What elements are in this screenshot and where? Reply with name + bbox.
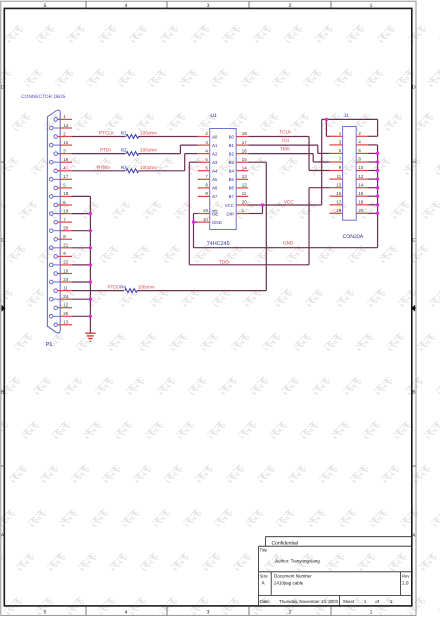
svg-text:1: 1 [370,609,373,615]
svg-text:16: 16 [63,157,68,162]
svg-text:100ohm: 100ohm [140,131,157,136]
svg-text:20: 20 [63,226,68,231]
svg-text:CONNECTOR DB25: CONNECTOR DB25 [21,94,65,100]
svg-text:Date:: Date: [260,599,271,604]
svg-text:15: 15 [336,191,341,196]
svg-text:11: 11 [242,191,247,196]
svg-text:B: B [1,390,4,396]
svg-text:13: 13 [242,174,247,179]
svg-text:25: 25 [63,311,68,316]
svg-text:A1: A1 [212,143,218,148]
svg-text:14: 14 [63,123,68,128]
svg-text:2: 2 [289,3,292,9]
svg-text:A5: A5 [212,177,218,182]
svg-text:13: 13 [336,182,341,187]
svg-text:20: 20 [242,200,247,205]
svg-text:OE: OE [212,211,218,216]
svg-text:U1: U1 [211,113,218,119]
svg-text:TDO: TDO [219,259,229,264]
svg-text:21: 21 [63,243,68,248]
svg-text:18: 18 [358,200,363,205]
svg-text:A2: A2 [212,151,218,156]
svg-text:B2: B2 [229,151,235,156]
svg-text:11: 11 [337,174,342,179]
svg-text:PTDO: PTDO [108,285,121,290]
svg-text:TDI: TDI [281,138,289,143]
svg-text:B4: B4 [229,169,235,174]
svg-text:4: 4 [125,609,128,615]
svg-text:B5: B5 [229,177,235,182]
svg-text:1: 1 [370,3,373,9]
svg-text:17: 17 [242,140,247,145]
svg-text:18: 18 [63,191,68,196]
svg-text:C: C [1,238,5,244]
svg-text:B3: B3 [229,160,235,165]
svg-text:PTDI: PTDI [100,148,111,153]
svg-text:100ohm: 100ohm [140,148,157,153]
svg-text:19: 19 [63,208,68,213]
svg-text:Title: Title [260,547,268,552]
svg-text:GND: GND [212,220,222,225]
svg-text:B1: B1 [229,143,235,148]
svg-text:B: B [412,390,415,396]
svg-text:VCC: VCC [284,199,295,204]
svg-text:24: 24 [63,294,68,299]
svg-text:17: 17 [63,174,68,179]
svg-text:100ohm: 100ohm [138,285,155,290]
svg-text:A7: A7 [212,194,218,199]
svg-text:R1: R1 [121,131,127,136]
svg-text:11: 11 [63,285,68,290]
svg-text:B0: B0 [229,134,235,139]
svg-text:R2: R2 [121,148,127,153]
svg-text:19: 19 [203,208,208,213]
svg-text:A3: A3 [212,160,218,165]
svg-text:23: 23 [63,277,68,282]
svg-text:P1: P1 [46,342,53,348]
svg-text:1.0: 1.0 [402,581,409,586]
svg-text:10: 10 [358,165,363,170]
svg-text:Rev: Rev [402,573,410,578]
svg-text:3: 3 [207,609,210,615]
svg-text:D: D [412,85,416,91]
svg-text:PTMS: PTMS [97,165,110,170]
svg-text:12: 12 [242,183,247,188]
svg-text:10: 10 [63,268,68,273]
svg-text:18: 18 [242,131,247,136]
svg-text:2: 2 [289,609,292,615]
svg-text:R3: R3 [121,165,127,170]
svg-text:DIR: DIR [226,211,234,216]
svg-text:12: 12 [358,174,363,179]
svg-text:A0: A0 [212,134,218,139]
svg-text:100ohm: 100ohm [140,165,157,170]
svg-text:Size: Size [260,573,269,578]
svg-text:3: 3 [207,3,210,9]
svg-text:B7: B7 [229,194,235,199]
svg-text:A6: A6 [212,186,218,191]
svg-text:15: 15 [242,157,247,162]
svg-text:Confidential: Confidential [272,540,298,546]
svg-text:VCC: VCC [225,203,234,208]
svg-text:CON20A: CON20A [343,234,364,240]
svg-text:74HC245: 74HC245 [207,241,230,247]
svg-text:A4: A4 [212,169,218,174]
svg-text:12: 12 [63,303,68,308]
svg-text:PTCLK: PTCLK [99,131,115,136]
svg-text:13: 13 [63,320,68,325]
svg-text:J1: J1 [344,113,350,119]
svg-text:5: 5 [44,3,47,9]
svg-text:19: 19 [336,208,341,213]
svg-text:20: 20 [358,208,363,213]
svg-text:16: 16 [242,148,247,153]
svg-text:14: 14 [358,182,363,187]
svg-text:17: 17 [336,200,341,205]
svg-text:Sheet: Sheet [343,599,355,604]
svg-text:TCLK: TCLK [279,130,292,135]
svg-text:14: 14 [242,165,247,170]
svg-text:22: 22 [63,260,68,265]
svg-text:B6: B6 [229,186,235,191]
svg-text:C: C [412,238,416,244]
svg-text:Author: Tianyongxiang: Author: Tianyongxiang [275,558,320,563]
svg-text:GND: GND [283,241,294,246]
svg-text:D: D [1,85,5,91]
svg-text:16: 16 [358,191,363,196]
svg-text:15: 15 [63,140,68,145]
svg-text:5: 5 [44,609,47,615]
svg-text:2410jtag cable: 2410jtag cable [274,581,304,586]
svg-text:TMS: TMS [280,147,290,152]
svg-text:Document Number: Document Number [274,573,312,578]
svg-text:Thursday, November 13, 2003: Thursday, November 13, 2003 [279,599,339,604]
svg-text:10: 10 [203,217,208,222]
svg-text:4: 4 [125,3,128,9]
